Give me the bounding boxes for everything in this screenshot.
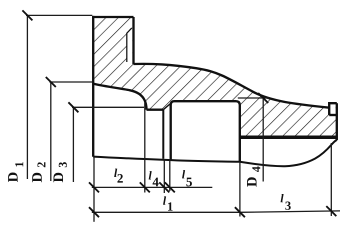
dimension D3 line [72, 107, 74, 182]
dimension line l1/l3 [92, 211, 340, 212]
flange relief groove (white) [127, 28, 133, 62]
dimension D2 line [50, 82, 52, 181]
tick l1 right / l3 left [235, 207, 245, 217]
label l1 [163, 196, 166, 204]
label l5 [182, 170, 185, 178]
section hatching [93, 17, 337, 137]
extension line hub step (x=144.8) [144, 103, 146, 193]
dimension D4 line [262, 98, 264, 182]
part outline: bottom edge [93, 140, 337, 166]
part outline: right end edge [336, 103, 338, 140]
dimension D4 tick [258, 93, 268, 103]
dimension D3 extension line [72, 106, 144, 108]
dimension D2 label [32, 173, 42, 183]
tick l1 left [89, 207, 99, 217]
part outline: flange top edge [92, 16, 133, 18]
extension line left bottom (x=94) [93, 157, 95, 222]
part outline: bore step top edge [147, 109, 164, 111]
dimension D3 tick [68, 102, 78, 112]
part outline: bore rectangle [171, 101, 240, 161]
part outline: top profile curve [134, 64, 330, 108]
label l4 [149, 171, 152, 179]
part outline: flange left edge [92, 16, 94, 157]
dimension D3 label [54, 173, 64, 183]
dimension D4 label [247, 177, 257, 187]
label l2 [114, 169, 117, 177]
dimension D1 tick [22, 10, 32, 20]
dimension D2 tick [46, 77, 56, 87]
part outline: bore step vertical edge [162, 110, 164, 159]
tick l4 right [159, 182, 169, 192]
part outline: end lip [329, 103, 337, 115]
extension line bore step (x=164.3) [163, 159, 165, 193]
label l3 [281, 194, 284, 202]
part outline: flange right edge [132, 17, 134, 64]
extension line right end (x=331.3) [330, 143, 332, 216]
dimension D4 extension line [238, 97, 269, 99]
tick l5 left [165, 182, 175, 192]
dimension D1 label [8, 173, 18, 183]
part outline: hub step face curve (S-curve) [93, 84, 146, 110]
tick l2 left [89, 182, 99, 192]
tick l2 right / l4 left [140, 182, 150, 192]
flange relief groove lines [127, 28, 132, 62]
extension line bore right (x=239.9) [239, 162, 241, 217]
dimension D2 extension line [49, 81, 92, 83]
dimension line l2/l4/l5 [92, 186, 213, 188]
part outline: rim bottom edge [240, 136, 337, 140]
extension line bore left (x=169.8) [169, 159, 171, 191]
tick l3 right [326, 206, 336, 216]
end lip groove (white) [330, 104, 335, 113]
dimension D1 extension line [26, 14, 92, 16]
end lip groove bottom line [329, 114, 337, 116]
dimension D1 line [26, 15, 28, 179]
bore chamfer [163, 103, 170, 109]
